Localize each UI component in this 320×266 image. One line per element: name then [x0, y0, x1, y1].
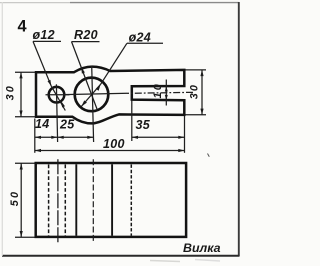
leader D24 shelf: [127, 42, 163, 44]
arrow 14 right: [51, 136, 57, 139]
leader R20 shelf: [72, 41, 100, 43]
arrow 35 right: [178, 136, 184, 139]
arrow D12 upper: [48, 80, 52, 86]
axis big hole front view: [92, 159, 94, 242]
arrow 10 up: [165, 86, 168, 91]
edge line boss right front view: [111, 164, 113, 236]
arrow 14 left: [35, 136, 41, 139]
arrow 10 down: [165, 95, 168, 100]
svg-text:30: 30: [189, 83, 201, 99]
svg-text:14: 14: [35, 117, 50, 131]
arrow 25 left: [58, 136, 64, 139]
leader D12 line through circle: [51, 86, 65, 110]
dim line 100: [35, 150, 185, 152]
arrow 100 right: [178, 149, 184, 152]
hole circle D12: [49, 87, 65, 103]
svg-text:35: 35: [136, 118, 151, 132]
top view outline of fork body: [36, 67, 184, 124]
leader D24 line: [101, 43, 127, 84]
svg-text:Вилка: Вилка: [183, 241, 221, 255]
dim 30 left line: [20, 72, 22, 117]
frame right line: [238, 2, 240, 256]
svg-text:100: 100: [103, 137, 125, 151]
dim 50 extension bottom: [15, 236, 35, 238]
dim 50 extension top: [15, 162, 35, 164]
slot centerline dash-dot: [122, 92, 195, 93]
axis small hole front view: [57, 159, 59, 242]
hole circle D24: [75, 78, 109, 112]
arrow D24 upper: [96, 84, 101, 91]
leader R20 line: [72, 42, 98, 109]
scan smudges below frame: [150, 261, 180, 262]
svg-text:R20: R20: [74, 28, 98, 42]
dim line 14-25: [35, 136, 94, 138]
hidden line slot end front view: [130, 165, 132, 236]
hidden line hole D12 left: [48, 165, 50, 236]
leader D12 shelf: [33, 40, 61, 42]
svg-text:4: 4: [18, 17, 27, 35]
scan speck: [208, 154, 210, 157]
centerline vertical small circle: [56, 84, 57, 142]
svg-text:ø12: ø12: [33, 28, 55, 42]
arrow 30 right top: [200, 70, 203, 76]
frame top line faint left part: [0, 2, 70, 4]
extension line part right edge: [184, 116, 186, 153]
dim 30 right extension top: [186, 69, 207, 71]
arrow 50 top: [20, 163, 23, 169]
hidden line hole D12 right: [64, 165, 66, 236]
dim 30 left extension top: [15, 71, 35, 73]
svg-text:25: 25: [59, 117, 75, 131]
dim line 35: [132, 136, 185, 138]
arrow 100 left: [35, 149, 41, 152]
frame left line: [1, 2, 3, 256]
svg-text:10: 10: [152, 82, 164, 98]
centerline horizontal small circle: [46, 94, 70, 96]
svg-text:30: 30: [4, 84, 16, 100]
dim 30 right line: [201, 70, 203, 115]
dim 10 line: [165, 80, 167, 106]
arrow 30 left bottom: [19, 111, 22, 117]
front view outline rectangle: [36, 163, 186, 237]
svg-text:ø24: ø24: [129, 31, 151, 45]
extension line slot end: [131, 100, 133, 141]
arrow R20: [81, 67, 85, 73]
centerline vertical big circle: [92, 66, 94, 143]
arrow 30 right bottom: [200, 109, 203, 115]
edge line boss left front view: [75, 164, 77, 236]
arrow 30 left top: [19, 72, 22, 78]
centerline horizontal big circle: [63, 93, 122, 94]
svg-text:50: 50: [9, 190, 21, 206]
arrow D12 lower: [61, 101, 65, 107]
diameter line D24: [81, 84, 100, 106]
arrow 35 left: [132, 136, 138, 139]
frame bottom line: [2, 255, 240, 257]
frame top line: [70, 2, 239, 4]
dim 50 line: [20, 163, 22, 237]
leader D12 line: [33, 41, 51, 86]
arrow 25 right: [87, 136, 93, 139]
arrow 50 bottom: [20, 231, 23, 237]
dim 30 right extension bottom: [186, 114, 207, 116]
dim 30 left extension bottom: [15, 116, 35, 118]
extension line part left edge: [34, 119, 36, 153]
arrow D24 lower: [81, 100, 87, 106]
